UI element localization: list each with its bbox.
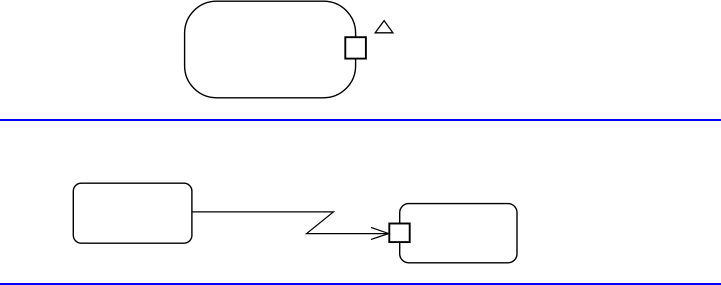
zigzag connector wire	[192, 212, 389, 234]
port square on right rectangle left edge	[389, 224, 409, 243]
left rectangle	[73, 183, 192, 243]
triangle marker	[375, 21, 393, 33]
separator line upper	[0, 119, 721, 121]
right rounded rectangle	[400, 204, 517, 263]
separator line lower	[0, 283, 721, 285]
state rounded rectangle top	[185, 1, 356, 98]
open arrowhead	[371, 227, 389, 239]
port square on top state right edge	[345, 37, 366, 58]
